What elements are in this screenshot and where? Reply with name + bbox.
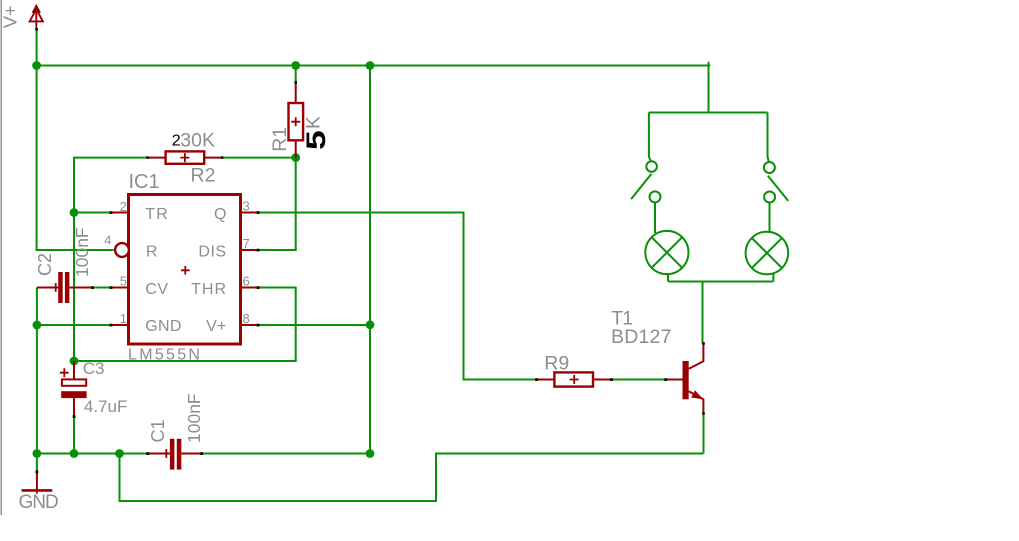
tick C1 right — [200, 452, 203, 455]
switch S1 lever — [631, 174, 651, 199]
svg-text:DIS: DIS — [198, 244, 226, 261]
svg-text:CV: CV — [145, 281, 168, 298]
svg-text:2: 2 — [172, 133, 181, 150]
tick C3 bottom — [73, 415, 76, 418]
svg-text:THR: THR — [191, 281, 227, 298]
svg-text:100nF: 100nF — [72, 227, 92, 277]
wire V+ rail down to pin4 row — [37, 66, 114, 251]
tick pin8 — [257, 324, 260, 327]
capacitor C2 — [37, 272, 93, 303]
node C1 right — [366, 449, 375, 458]
wire lamp2 top stub — [769, 203, 771, 233]
node GND pin1 — [33, 321, 42, 330]
svg-text:8: 8 — [243, 311, 250, 326]
tick GND stub — [36, 470, 39, 473]
node V+ rail corner — [32, 61, 41, 70]
op-amp IC1 body (555) — [129, 195, 241, 345]
wire lamp1 bottom stub — [667, 273, 669, 282]
tick R2 right — [221, 156, 224, 159]
wire pin5 CV — [93, 287, 111, 289]
svg-text:4: 4 — [104, 233, 111, 248]
wire right switch drop — [768, 113, 769, 163]
svg-text:TR: TR — [145, 206, 169, 223]
tick R9 left — [535, 378, 538, 381]
svg-text:30K: 30K — [180, 130, 215, 152]
svg-text:5: 5 — [300, 130, 331, 150]
wire V+ drop to top rail — [36, 30, 38, 66]
supply V+ symbol — [30, 6, 43, 29]
resistor R1 — [289, 83, 304, 158]
svg-text:C2: C2 — [35, 253, 55, 276]
wire GND stub — [36, 454, 38, 472]
wire emitter drop — [703, 414, 705, 454]
tick R9 right — [610, 378, 613, 381]
wire GND bottom rail — [37, 453, 148, 455]
pin 3 Q stub — [241, 212, 259, 214]
switch S2 contacts — [764, 162, 775, 173]
node A R1/R2/DIS — [291, 153, 300, 162]
pin 8 V+ stub — [241, 324, 259, 326]
wire bottom jog — [120, 454, 704, 502]
svg-text:GND: GND — [145, 318, 181, 335]
switch S2 lever — [768, 176, 788, 201]
svg-text:GND: GND — [19, 492, 59, 513]
svg-text:7: 7 — [243, 236, 250, 251]
wire lamp bottom bar — [668, 281, 773, 283]
wire left switch drop — [649, 113, 651, 163]
tick base — [664, 378, 667, 381]
tick V+ stub — [35, 28, 38, 31]
switch S1 contacts — [646, 161, 657, 172]
tick pin1 — [110, 324, 113, 327]
wire collector riser — [702, 282, 704, 344]
tick emitter — [702, 412, 705, 415]
sheet border — [0, 0, 2, 515]
node C3 top — [70, 357, 79, 366]
svg-text:R2: R2 — [191, 165, 216, 187]
wire pin6 THR — [74, 288, 296, 362]
wire R2 left to TR rail — [74, 158, 148, 361]
svg-text:R9: R9 — [544, 353, 569, 375]
tick pin5 left — [91, 286, 94, 289]
wire TR rail lower segment — [73, 417, 75, 454]
wire C2 corner — [36, 288, 38, 326]
tick pin5 right — [110, 286, 113, 289]
tick pin6 — [257, 286, 260, 289]
resistor R2 — [148, 151, 223, 163]
wire V+ mid rail x370 — [369, 66, 371, 454]
svg-text:BD127: BD127 — [611, 326, 672, 348]
wire pin7 DIS riser — [259, 158, 296, 250]
pin 1 GND stub — [111, 324, 129, 326]
wire pin2 TR — [74, 212, 111, 214]
node C3 bottom — [70, 449, 79, 458]
tick collector — [702, 342, 705, 345]
capacitor C1 — [148, 439, 202, 470]
node TR pin2 — [70, 208, 79, 217]
svg-text:LM555N: LM555N — [128, 346, 202, 363]
svg-text:R: R — [146, 244, 158, 261]
svg-text:V+: V+ — [206, 318, 226, 335]
node V+ pin8 — [366, 320, 375, 329]
tick pin7 — [257, 249, 260, 252]
svg-text:1: 1 — [120, 311, 127, 326]
capacitor C3 polarized — [60, 361, 87, 417]
lamp LP1 — [645, 231, 688, 274]
wire GND left rail — [36, 325, 38, 454]
lamp LP2 — [746, 232, 789, 275]
svg-text:V+: V+ — [0, 5, 21, 28]
tick pin3 — [257, 211, 260, 214]
wire top rail — [37, 65, 709, 67]
svg-text:3: 3 — [243, 199, 250, 214]
svg-text:K: K — [303, 116, 324, 129]
wire lamp1 top stub — [654, 203, 656, 234]
svg-text:6: 6 — [243, 274, 250, 289]
svg-text:R1: R1 — [269, 127, 291, 152]
pin 7 DIS stub — [241, 249, 259, 251]
tick pin2 — [110, 211, 113, 214]
wire lamp2 bottom stub — [772, 273, 774, 282]
svg-text:2: 2 — [120, 199, 127, 214]
tick C1 left — [146, 452, 149, 455]
wire R2 right to node A — [223, 157, 296, 159]
tick R2 left — [146, 156, 149, 159]
resistor R9 — [537, 372, 612, 386]
wire pin8 V+ — [259, 324, 371, 326]
node R1 top — [291, 61, 300, 70]
svg-text:5: 5 — [120, 274, 127, 289]
node C1 left — [115, 449, 124, 458]
pin 2 TR stub — [111, 212, 129, 214]
svg-text:C1: C1 — [148, 419, 168, 442]
wire top rail end overshoot — [709, 65, 711, 67]
node x370 top — [366, 61, 375, 70]
node GND corner — [33, 449, 42, 458]
svg-text:C3: C3 — [83, 359, 105, 378]
pin 4 R stub with bubble — [115, 243, 129, 257]
svg-text:4.7uF: 4.7uF — [84, 397, 127, 416]
wire top-right corner down — [708, 62, 710, 113]
wire pin1 GND — [37, 324, 111, 326]
svg-text:Q: Q — [214, 206, 226, 223]
svg-text:100nF: 100nF — [184, 393, 204, 443]
svg-text:IC1: IC1 — [129, 171, 160, 193]
wire C1 right to rail — [202, 453, 371, 455]
pin 6 THR stub — [241, 287, 259, 289]
wire R9 right to base — [611, 379, 665, 381]
wire R1 top — [295, 66, 297, 83]
transistor T1 — [666, 344, 704, 414]
wire pin3 Q out — [259, 213, 537, 380]
pin 5 CV stub — [111, 287, 129, 289]
ground GND symbol — [22, 472, 53, 494]
wire lamp top bar — [649, 112, 768, 114]
tick R1 top — [294, 81, 297, 84]
